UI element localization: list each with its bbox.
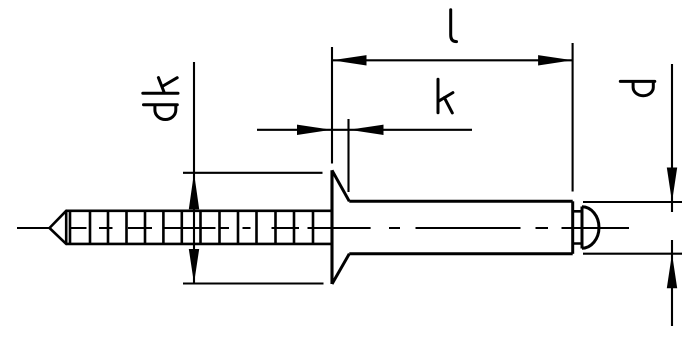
rivet countersunk head face	[330, 170, 333, 284]
dimension k extension line	[347, 119, 349, 192]
dimension k line	[257, 129, 472, 131]
dimension l line	[332, 59, 573, 61]
dimension dk top extension line	[183, 172, 323, 174]
dimension d line bottom	[671, 240, 673, 326]
dimension l extension line left	[331, 47, 333, 164]
rivet body end	[571, 201, 574, 254]
dimension d bottom extension line	[583, 253, 682, 255]
centerline axis	[17, 227, 629, 229]
label l	[451, 10, 457, 42]
dimension l left arrowhead	[332, 55, 367, 65]
mandrel cone tip	[50, 211, 67, 244]
dimension d line top	[671, 64, 673, 212]
label dk rotated d	[144, 105, 178, 120]
dimension dk up arrowhead	[189, 173, 199, 210]
label k	[438, 79, 453, 113]
dimension k right arrowhead	[349, 125, 384, 135]
head cone bottom slant	[332, 254, 349, 284]
mandrel cone base band	[66, 211, 70, 244]
rivet body bottom edge	[349, 252, 572, 255]
dimension d down arrowhead	[667, 168, 677, 203]
mandrel head dome	[582, 207, 599, 248]
dimension dk line	[193, 62, 195, 284]
dimension l extension line right	[572, 43, 574, 192]
rivet body top edge	[349, 200, 572, 203]
mandrel stem right	[573, 211, 582, 243]
mandrel serrations	[90, 211, 313, 244]
label d rotated	[620, 81, 655, 95]
dimension d up arrowhead	[667, 254, 677, 289]
dimension l right arrowhead	[538, 55, 573, 65]
dimension k left arrowhead	[297, 125, 332, 135]
dimension d top extension line	[583, 201, 682, 203]
label dk rotated k	[143, 78, 178, 94]
mandrel head face	[581, 207, 584, 249]
mandrel shaft bottom edge	[66, 243, 332, 246]
mandrel shaft top edge	[66, 210, 332, 213]
dimension dk down arrowhead	[189, 249, 199, 284]
dimension dk bottom extension line	[183, 282, 324, 284]
head cone top slant	[332, 170, 349, 201]
